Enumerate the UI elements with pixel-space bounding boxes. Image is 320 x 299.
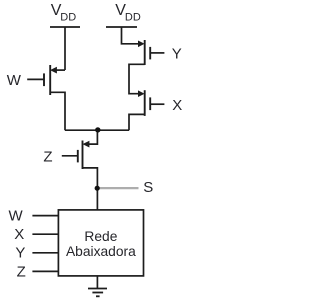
svg-text:DD: DD — [60, 12, 76, 24]
svg-text:Abaixadora: Abaixadora — [66, 244, 136, 259]
svg-text:Z: Z — [43, 148, 52, 165]
svg-text:S: S — [143, 179, 153, 196]
svg-text:X: X — [172, 97, 182, 114]
svg-text:W: W — [9, 208, 24, 225]
svg-text:X: X — [14, 226, 24, 243]
svg-text:Z: Z — [17, 263, 26, 280]
svg-text:Rede: Rede — [84, 229, 117, 244]
svg-text:W: W — [7, 72, 22, 89]
svg-text:Y: Y — [15, 245, 25, 262]
svg-text:DD: DD — [125, 12, 141, 24]
svg-text:Y: Y — [172, 46, 182, 63]
